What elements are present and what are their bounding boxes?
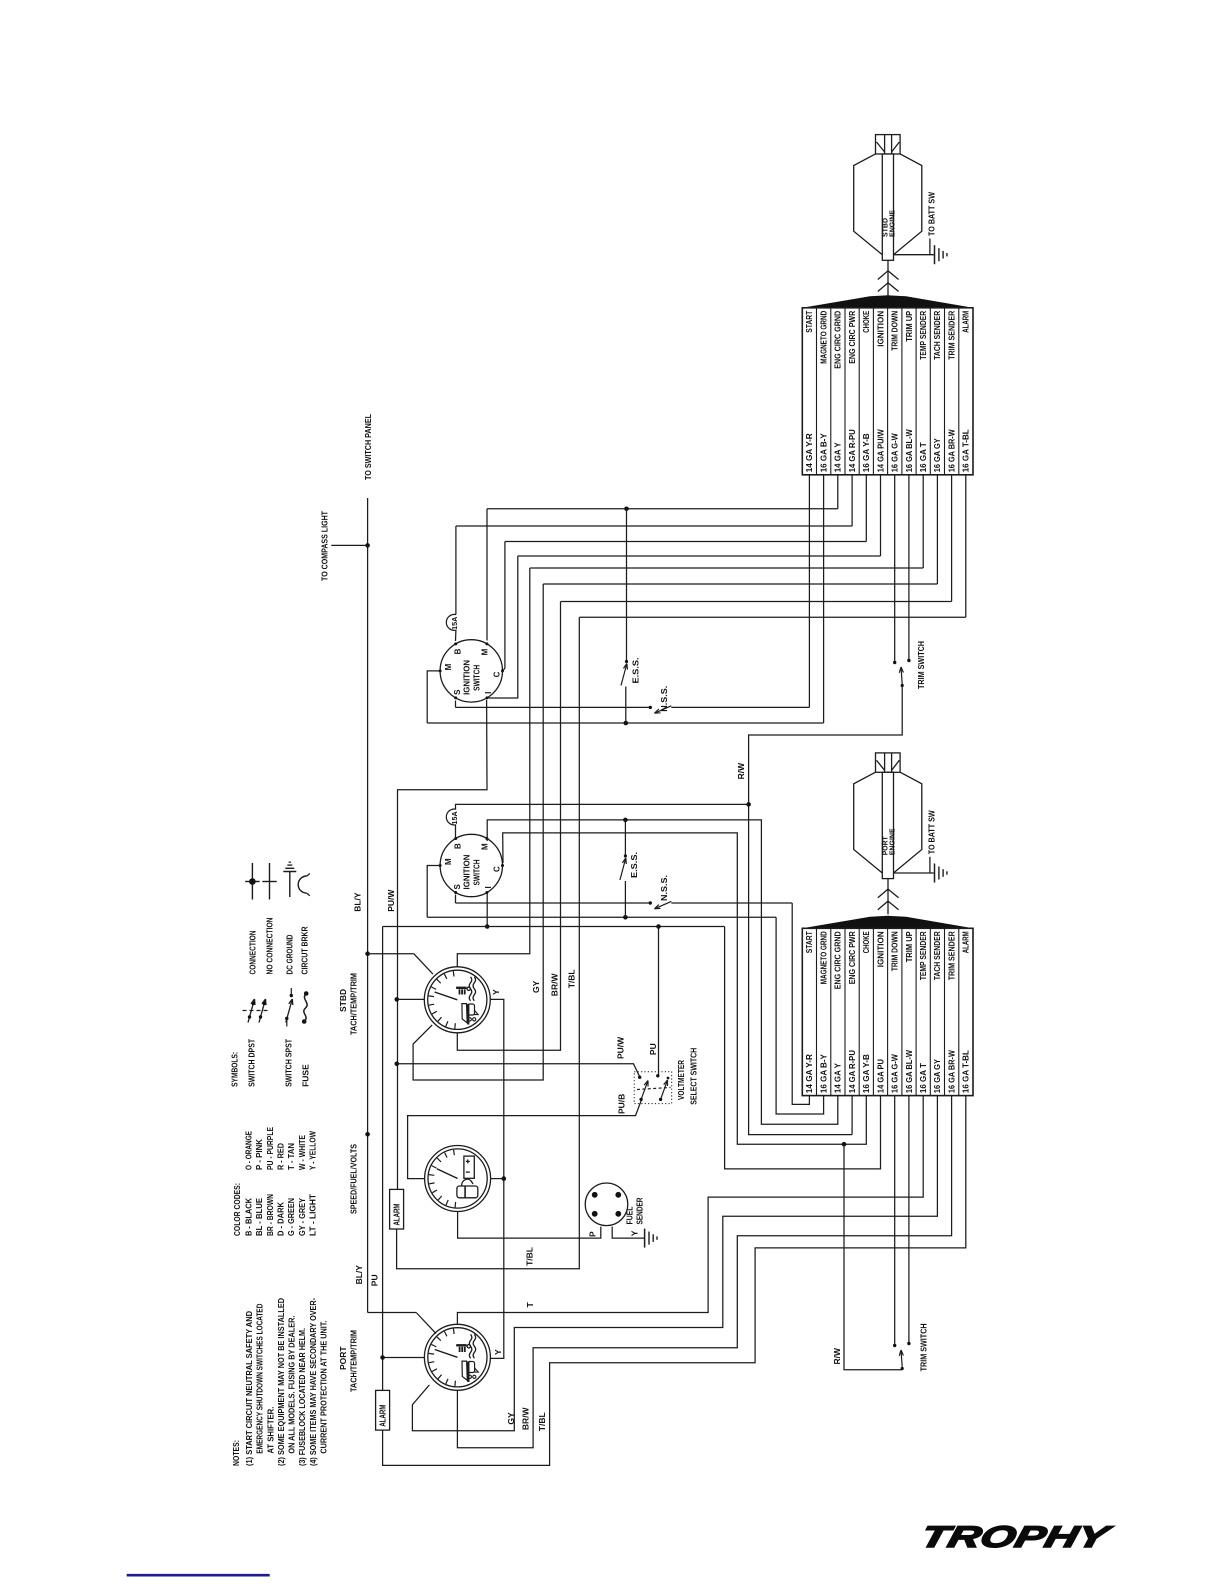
svg-text:C: C (492, 671, 501, 677)
svg-text:R/W: R/W (832, 1347, 842, 1365)
svg-text:TO COMPASS LIGHT: TO COMPASS LIGHT (320, 510, 330, 581)
svg-text:16 GA T: 16 GA T (919, 1063, 928, 1093)
svg-text:SELECT SWITCH: SELECT SWITCH (689, 1048, 699, 1105)
svg-text:16 GA BL-W: 16 GA BL-W (905, 1050, 914, 1093)
svg-text:STBD: STBD (338, 989, 348, 1012)
svg-text:R/W: R/W (736, 762, 746, 780)
svg-text:I: I (484, 692, 493, 694)
svg-text:TEMP SENDER: TEMP SENDER (919, 311, 928, 360)
svg-text:16 GA T-BL: 16 GA T-BL (962, 1050, 971, 1093)
svg-text:E.S.S.: E.S.S. (630, 658, 640, 684)
svg-text:14 GA R-PU: 14 GA R-PU (848, 429, 857, 472)
svg-text:E.S.S.: E.S.S. (629, 852, 639, 878)
svg-text:T/BL: T/BL (525, 1247, 535, 1266)
svg-text:PORT: PORT (338, 1346, 348, 1370)
svg-text:16 GA BR-W: 16 GA BR-W (948, 1050, 957, 1093)
svg-text:PU/W: PU/W (615, 1036, 625, 1059)
svg-text:COLOR CODES:: COLOR CODES: (232, 1183, 242, 1236)
svg-text:IGNITION: IGNITION (463, 660, 472, 695)
svg-text:SENDER: SENDER (635, 1198, 645, 1225)
svg-text:(3) FUSEBLOCK LOCATED NEAR HEL: (3) FUSEBLOCK LOCATED NEAR HELM. (297, 1328, 307, 1466)
svg-text:TROPHY: TROPHY (917, 1520, 1115, 1553)
svg-text:TRIM UP: TRIM UP (905, 310, 914, 341)
svg-text:16 GA BR-W: 16 GA BR-W (948, 429, 957, 472)
svg-text:16 GA Y-B: 16 GA Y-B (862, 1054, 871, 1093)
svg-text:B: B (453, 843, 462, 849)
svg-text:ENG CIRC GRND: ENG CIRC GRND (834, 931, 843, 989)
svg-text:16 GA B-Y: 16 GA B-Y (819, 433, 828, 473)
svg-text:(2) SOME EQUIPMENT MAY NOT BE: (2) SOME EQUIPMENT MAY NOT BE INSTALLED (276, 1298, 286, 1466)
svg-text:D - DARK: D - DARK (276, 1201, 286, 1236)
svg-text:16 GA G-W: 16 GA G-W (891, 433, 900, 472)
svg-text:MAGNETO GRND: MAGNETO GRND (819, 311, 828, 364)
svg-text:SWITCH SPST: SWITCH SPST (284, 1038, 294, 1087)
svg-text:Y: Y (491, 989, 501, 995)
svg-text:BL/Y: BL/Y (353, 892, 363, 912)
svg-text:16 GA GY: 16 GA GY (933, 1059, 942, 1093)
svg-text:M: M (480, 648, 489, 655)
svg-text:FUSE: FUSE (300, 1064, 310, 1087)
svg-text:TACH SENDER: TACH SENDER (933, 931, 942, 980)
svg-text:P: P (587, 1231, 597, 1237)
svg-text:M: M (480, 843, 489, 850)
svg-text:TRIM UP: TRIM UP (905, 931, 914, 962)
svg-text:SPEED/FUEL/VOLTS: SPEED/FUEL/VOLTS (349, 1144, 359, 1214)
svg-text:ENG CIRC PWR: ENG CIRC PWR (848, 311, 857, 364)
svg-text:FUEL: FUEL (625, 1207, 635, 1225)
svg-text:PU: PU (370, 1274, 380, 1286)
svg-text:PU/B: PU/B (617, 1094, 627, 1114)
svg-text:C: C (492, 866, 501, 872)
svg-text:O - ORANGE: O - ORANGE (243, 1131, 253, 1170)
svg-text:TRIM DOWN: TRIM DOWN (891, 931, 900, 971)
svg-text:TACH/TEMP/TRIM: TACH/TEMP/TRIM (349, 973, 359, 1035)
svg-text:IGNITION: IGNITION (876, 931, 885, 967)
svg-text:ENG CIRC PWR: ENG CIRC PWR (848, 931, 857, 984)
svg-text:IGNITION: IGNITION (463, 854, 472, 889)
svg-text:BR/W: BR/W (549, 973, 559, 997)
svg-text:NO CONNECTION: NO CONNECTION (265, 918, 275, 975)
svg-text:CONNECTION: CONNECTION (247, 931, 257, 975)
svg-text:ENGINE: ENGINE (888, 210, 897, 237)
svg-text:M: M (444, 663, 453, 670)
svg-text:GY - GREY: GY - GREY (297, 1198, 307, 1236)
svg-text:14 GA PU: 14 GA PU (876, 1059, 885, 1093)
svg-text:T: T (525, 1302, 535, 1308)
svg-text:CHOKE: CHOKE (862, 931, 871, 953)
svg-text:PU - PURPLE: PU - PURPLE (265, 1127, 275, 1170)
svg-text:VOLTMETER: VOLTMETER (676, 1060, 686, 1100)
svg-text:14 GA PU/W: 14 GA PU/W (876, 429, 885, 472)
svg-text:Y: Y (493, 1349, 503, 1355)
svg-text:I: I (484, 886, 493, 888)
svg-text:S: S (453, 884, 462, 890)
svg-text:16 GA B-Y: 16 GA B-Y (819, 1054, 828, 1094)
svg-text:TACH/TEMP/TRIM: TACH/TEMP/TRIM (349, 1330, 359, 1392)
svg-text:CIRCUT BRKR: CIRCUT BRKR (300, 927, 310, 975)
svg-text:START: START (805, 311, 814, 333)
svg-text:DC GROUND: DC GROUND (285, 935, 295, 975)
svg-text:16 GA T-BL: 16 GA T-BL (962, 429, 971, 472)
svg-text:GY: GY (531, 980, 541, 993)
svg-text:TACH SENDER: TACH SENDER (933, 311, 942, 360)
svg-text:AT SHIFTER.: AT SHIFTER. (265, 1407, 275, 1454)
svg-text:14 GA R-PU: 14 GA R-PU (848, 1050, 857, 1093)
svg-text:TRIM SENDER: TRIM SENDER (948, 931, 957, 980)
svg-text:ENGINE: ENGINE (888, 828, 897, 855)
svg-text:BL - BLUE: BL - BLUE (254, 1198, 264, 1236)
svg-text:PU: PU (648, 1043, 658, 1055)
svg-text:N.S.S.: N.S.S. (659, 686, 669, 712)
svg-text:(1) START CIRCUIT NEUTRAL SAFE: (1) START CIRCUIT NEUTRAL SAFETY AND (244, 1311, 254, 1466)
svg-text:GY: GY (506, 1412, 516, 1425)
svg-text:ENG CIRC GRND: ENG CIRC GRND (834, 311, 843, 369)
svg-text:16 GA Y-B: 16 GA Y-B (862, 433, 871, 472)
svg-text:R - RED: R - RED (276, 1143, 286, 1170)
svg-text:TRIM DOWN: TRIM DOWN (891, 311, 900, 351)
svg-text:SWITCH: SWITCH (472, 665, 481, 691)
svg-text:16 GA BL-W: 16 GA BL-W (905, 429, 914, 472)
svg-text:CHOKE: CHOKE (862, 310, 871, 332)
svg-text:P - PINK: P - PINK (254, 1138, 264, 1170)
svg-text:BR - BROWN: BR - BROWN (265, 1194, 275, 1236)
svg-text:T/BL: T/BL (567, 969, 577, 988)
svg-text:T/BL: T/BL (537, 1412, 547, 1431)
svg-text:16 GA T: 16 GA T (919, 442, 928, 472)
svg-text:IGNITION: IGNITION (876, 311, 885, 347)
svg-text:14 GA Y-R: 14 GA Y-R (805, 433, 814, 472)
svg-text:Y - YELLOW: Y - YELLOW (308, 1130, 318, 1170)
svg-text:ALARM: ALARM (962, 931, 971, 953)
svg-text:Y: Y (629, 1230, 639, 1236)
svg-text:SWITCH DPST: SWITCH DPST (247, 1038, 257, 1087)
svg-text:TRIM SENDER: TRIM SENDER (948, 311, 957, 360)
svg-text:16 GA G-W: 16 GA G-W (891, 1054, 900, 1093)
svg-text:M: M (444, 858, 453, 865)
svg-text:BL/Y: BL/Y (354, 1265, 364, 1285)
svg-text:S: S (453, 689, 462, 695)
svg-text:TRIM SWITCH: TRIM SWITCH (916, 641, 926, 689)
svg-text:15A: 15A (450, 811, 459, 824)
svg-text:CURRENT PROTECTION AT THE UNIT: CURRENT PROTECTION AT THE UNIT. (319, 1321, 329, 1454)
svg-text:BR/W: BR/W (520, 1406, 530, 1430)
svg-text:T - TAN: T - TAN (286, 1143, 296, 1170)
svg-text:G - GREEN: G - GREEN (286, 1198, 296, 1236)
svg-text:ALARM: ALARM (962, 311, 971, 333)
svg-text:15A: 15A (450, 617, 459, 630)
svg-text:TO SWITCH PANEL: TO SWITCH PANEL (363, 414, 373, 480)
svg-text:16 GA GY: 16 GA GY (933, 438, 942, 472)
svg-text:START: START (805, 931, 814, 953)
svg-text:B: B (453, 648, 462, 654)
svg-text:NOTES:: NOTES: (231, 1440, 241, 1466)
svg-text:LT - LIGHT: LT - LIGHT (308, 1193, 318, 1236)
svg-text:14 GA Y: 14 GA Y (834, 442, 843, 473)
svg-text:TO BATT SW: TO BATT SW (927, 191, 937, 236)
svg-text:N.S.S.: N.S.S. (659, 875, 669, 901)
svg-text:(4) SOME ITEMS MAY HAVE SECOND: (4) SOME ITEMS MAY HAVE SECONDARY OVER- (308, 1298, 318, 1466)
svg-text:SWITCH: SWITCH (472, 859, 481, 885)
svg-text:EMERGENCY SHUTDOWN SWITCHES LO: EMERGENCY SHUTDOWN SWITCHES LOCATED (255, 1304, 265, 1454)
svg-text:ALARM: ALARM (393, 1204, 402, 1226)
svg-text:PU/W: PU/W (386, 889, 396, 912)
svg-text:B - BLACK: B - BLACK (243, 1197, 253, 1236)
svg-text:14 GA Y: 14 GA Y (834, 1063, 843, 1094)
svg-text:TO BATT SW: TO BATT SW (927, 809, 937, 854)
svg-text:W - WHITE: W - WHITE (297, 1135, 307, 1170)
svg-text:MAGNETO GRND: MAGNETO GRND (819, 931, 828, 984)
svg-text:SYMBOLS:: SYMBOLS: (230, 1052, 240, 1087)
svg-text:14 GA Y-R: 14 GA Y-R (805, 1054, 814, 1093)
svg-text:TRIM SWITCH: TRIM SWITCH (918, 1323, 928, 1371)
svg-text:TEMP SENDER: TEMP SENDER (919, 931, 928, 980)
svg-text:ON ALL MODELS. FUSING BY DEALE: ON ALL MODELS. FUSING BY DEALER. (287, 1316, 297, 1454)
svg-text:ALARM: ALARM (379, 1405, 388, 1427)
